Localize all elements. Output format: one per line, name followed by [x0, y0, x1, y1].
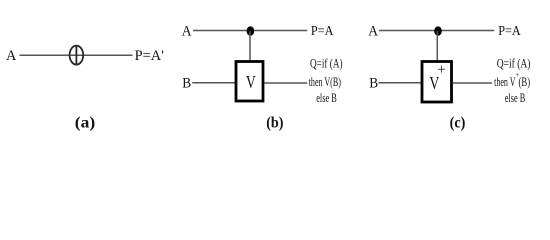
wire (box b to output)	[265, 82, 308, 84]
wire (B to box b)	[192, 82, 235, 84]
svg-text:B: B	[369, 76, 378, 92]
svg-text:P=A: P=A	[498, 24, 521, 39]
wire (control to box c)	[436, 31, 438, 61]
wire (B to box c)	[378, 82, 422, 84]
wire (control to box b)	[249, 31, 251, 61]
svg-text:A: A	[6, 48, 17, 64]
svg-text:(B): (B)	[519, 75, 531, 89]
svg-text:P=A': P=A'	[135, 48, 165, 64]
wire	[20, 54, 133, 56]
svg-text:(a): (a)	[75, 115, 95, 132]
svg-text:P=A: P=A	[311, 24, 334, 39]
wire (box c to output)	[453, 82, 492, 84]
wire (top rail c)	[379, 30, 494, 32]
wire (top rail b)	[193, 30, 307, 32]
svg-text:Q=if (A): Q=if (A)	[310, 56, 343, 71]
svg-text:then V(B): then V(B)	[309, 75, 341, 89]
svg-text:else B: else B	[505, 91, 526, 105]
control dot (c)	[434, 26, 442, 36]
XOR gate (circled plus)	[70, 46, 84, 65]
svg-text:(c): (c)	[450, 115, 466, 132]
controlled-V-dagger gate box (c)	[422, 62, 452, 103]
svg-text:V: V	[246, 72, 256, 92]
controlled-V gate box (b)	[236, 62, 263, 102]
svg-text:(b): (b)	[266, 115, 283, 132]
svg-text:then V: then V	[494, 75, 515, 89]
svg-text:Q=if (A): Q=if (A)	[497, 56, 531, 71]
svg-text:else B: else B	[316, 91, 337, 105]
svg-text:A: A	[368, 24, 378, 40]
svg-text:B: B	[182, 76, 191, 92]
control dot (b)	[247, 26, 255, 36]
svg-text:+: +	[438, 62, 446, 78]
svg-text:A: A	[182, 24, 192, 40]
